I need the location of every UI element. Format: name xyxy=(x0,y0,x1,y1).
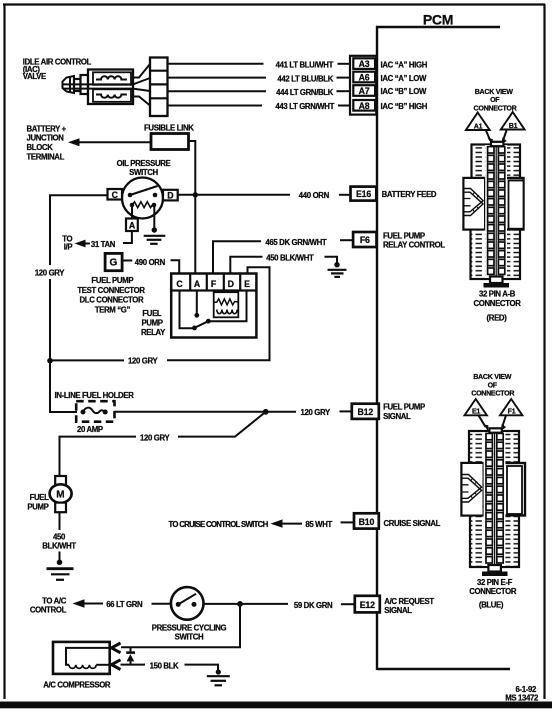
svg-text:BATTERY FEED: BATTERY FEED xyxy=(382,190,437,199)
oil pressure switch terminal A xyxy=(126,219,138,232)
pin F6 xyxy=(353,232,376,247)
svg-text:31 TAN: 31 TAN xyxy=(91,240,116,249)
IAC valve shaft collars xyxy=(74,75,88,94)
svg-text:SIGNAL: SIGNAL xyxy=(384,606,412,615)
relay internal wire from D to coil box xyxy=(231,291,233,293)
svg-text:SWITCH: SWITCH xyxy=(129,168,158,177)
left bus wire continues to junction xyxy=(49,279,51,361)
wire 120 GRY into junction xyxy=(50,359,124,361)
relay internal wire from A xyxy=(194,291,199,318)
svg-text:A/C COMPRESSOR: A/C COMPRESSOR xyxy=(43,681,111,690)
svg-text:I/P: I/P xyxy=(64,243,73,252)
svg-text:D: D xyxy=(167,191,173,201)
fuel pump test connector label xyxy=(77,276,145,315)
branch wire to fuel pump (diagonal) xyxy=(178,412,266,437)
relay switch moving contact xyxy=(192,319,211,330)
svg-text:32 PIN A-B: 32 PIN A-B xyxy=(479,290,516,299)
junction dot A/C request branch xyxy=(237,601,243,607)
32 pin A-B connector body xyxy=(464,145,524,280)
battery junction block terminal label xyxy=(27,124,67,161)
wire 490 ORN to relay terminal C xyxy=(171,260,180,273)
label TO A/C CONTROL with arrow xyxy=(30,597,103,615)
svg-text:JUNCTION: JUNCTION xyxy=(27,133,65,142)
A-B connector harness wedge xyxy=(464,178,486,230)
label FUEL PUMP xyxy=(27,493,49,512)
fuel pump relay terminal row xyxy=(171,274,256,291)
svg-text:120 GRY: 120 GRY xyxy=(35,269,65,278)
svg-text:444 LT GRN/BLK: 444 LT GRN/BLK xyxy=(276,88,334,97)
wire junction down to A/C compressor xyxy=(121,604,240,647)
fuel pump relay label xyxy=(141,309,166,337)
pin B10 xyxy=(354,513,379,528)
svg-text:120 GRY: 120 GRY xyxy=(140,433,170,442)
pin A3 xyxy=(353,58,375,69)
svg-text:C: C xyxy=(176,279,183,289)
in-line fuel holder dashed box xyxy=(76,401,114,422)
svg-text:A: A xyxy=(194,279,201,289)
svg-text:FUEL PUMP: FUEL PUMP xyxy=(383,231,425,240)
oil pressure switch terminal C xyxy=(108,189,123,200)
IAC 4-pin connector strip xyxy=(150,58,168,117)
svg-text:443 LT GRN/WHT: 443 LT GRN/WHT xyxy=(275,102,334,111)
svg-text:441 LT BLU/WHT: 441 LT BLU/WHT xyxy=(276,60,334,69)
svg-text:20 AMP: 20 AMP xyxy=(77,425,103,434)
svg-text:C: C xyxy=(112,190,119,200)
svg-text:SWITCH: SWITCH xyxy=(175,633,204,642)
A-B connector pin field xyxy=(485,142,507,278)
svg-text:PRESSURE CYCLING: PRESSURE CYCLING xyxy=(152,624,227,633)
back view of connector label (E-F) xyxy=(471,373,514,398)
wire 120 GRY from relay E around to fuel feed xyxy=(167,267,270,360)
svg-text:E: E xyxy=(244,279,250,289)
svg-text:OF: OF xyxy=(488,381,498,389)
svg-text:CONNECTOR: CONNECTOR xyxy=(471,390,514,398)
pressure cycling switch label xyxy=(152,624,227,642)
svg-text:CONNECTOR: CONNECTOR xyxy=(474,299,522,308)
ground below oil pressure switch xyxy=(144,227,166,244)
ground for 150 BLK xyxy=(207,669,230,685)
A-B connector pin column rails xyxy=(488,146,505,275)
svg-text:(BLUE): (BLUE) xyxy=(479,600,504,609)
fuse 20 AMP element xyxy=(81,408,108,415)
svg-text:66 LT GRN: 66 LT GRN xyxy=(106,600,143,609)
wire 441 LT BLU/WHT xyxy=(168,60,351,69)
svg-text:F6: F6 xyxy=(360,235,370,245)
E-F connector pin field xyxy=(484,428,506,567)
svg-text:150 BLK: 150 BLK xyxy=(150,661,179,670)
wire resistor to terminal A xyxy=(131,205,133,219)
wire coil B to connector pin 4 xyxy=(131,97,150,106)
ground below fuel pump xyxy=(47,560,74,580)
wire 444 LT GRN/BLK xyxy=(168,88,351,97)
svg-text:A6: A6 xyxy=(359,73,370,83)
back view of connector label (A-B) xyxy=(474,88,517,112)
svg-text:A3: A3 xyxy=(359,59,370,69)
ground for 450 BLK/WHT xyxy=(328,262,347,277)
junction dot fuel pump signal branch xyxy=(263,409,269,415)
svg-text:IAC “A” HIGH: IAC “A” HIGH xyxy=(381,60,428,69)
svg-text:RELAY: RELAY xyxy=(141,328,166,337)
wire 150 BLK xyxy=(121,661,219,671)
fuel pump relay outer box xyxy=(171,274,256,338)
IAC valve body xyxy=(63,70,150,105)
svg-text:D: D xyxy=(228,279,234,289)
svg-text:OIL PRESSURE: OIL PRESSURE xyxy=(117,159,171,168)
relay internal wire from C to switch contact xyxy=(180,291,194,329)
svg-text:450 BLK/WHT: 450 BLK/WHT xyxy=(266,254,314,263)
A/C compressor box xyxy=(53,642,110,674)
pin A7 xyxy=(353,85,375,96)
svg-text:MS 13472: MS 13472 xyxy=(505,694,539,703)
32 pin E-F connector body xyxy=(462,431,526,567)
svg-text:G: G xyxy=(110,258,118,269)
wire 450 BLK/WHT from fuel pump xyxy=(42,512,76,561)
pin B12 xyxy=(352,404,379,419)
svg-text:IN-LINE FUEL HOLDER: IN-LINE FUEL HOLDER xyxy=(55,391,135,400)
svg-text:E12: E12 xyxy=(360,600,375,610)
relay coil resistor xyxy=(214,299,239,305)
svg-text:DLC CONNECTOR: DLC CONNECTOR xyxy=(80,295,144,304)
left bus wire down to fuel holder xyxy=(50,361,77,412)
oil pressure switch label xyxy=(117,159,171,177)
svg-text:TO A/C: TO A/C xyxy=(42,597,67,606)
svg-text:CONNECTOR: CONNECTOR xyxy=(469,587,517,596)
svg-text:490 ORN: 490 ORN xyxy=(135,258,166,267)
relay coil box xyxy=(214,292,239,317)
oil pressure switch body xyxy=(122,178,163,219)
svg-text:B10: B10 xyxy=(359,517,375,527)
svg-text:CONNECTOR: CONNECTOR xyxy=(474,104,517,112)
svg-text:SIGNAL: SIGNAL xyxy=(383,412,411,421)
DLC test connector G xyxy=(105,253,122,270)
A-B connector bottom tab xyxy=(484,277,510,288)
label FUEL PUMP SIGNAL xyxy=(383,403,425,422)
svg-text:32 PIN E-F: 32 PIN E-F xyxy=(477,578,513,587)
svg-text:465 DK GRN/WHT: 465 DK GRN/WHT xyxy=(265,238,327,247)
svg-text:BACK VIEW: BACK VIEW xyxy=(475,88,513,96)
svg-text:RELAY CONTROL: RELAY CONTROL xyxy=(383,240,445,249)
svg-text:BATTERY +: BATTERY + xyxy=(27,124,67,133)
svg-text:TO CRUISE CONTROL SWITCH: TO CRUISE CONTROL SWITCH xyxy=(169,520,269,529)
wire terminal A to 31 TAN xyxy=(123,231,132,243)
svg-text:120 GRY: 120 GRY xyxy=(128,357,158,366)
wire 450 BLK/WHT from relay D xyxy=(230,254,337,274)
pin A6 xyxy=(353,72,375,83)
compressor input chevron arrow top xyxy=(112,643,121,653)
IAC coil B (bottom winding) xyxy=(93,89,131,102)
callout triangle E1 xyxy=(465,399,489,431)
svg-text:A7: A7 xyxy=(359,86,370,96)
svg-text:PUMP: PUMP xyxy=(142,318,163,327)
svg-text:F1: F1 xyxy=(508,408,516,416)
wire 85 WHT to pin B10 xyxy=(305,520,354,529)
svg-text:TERMINAL: TERMINAL xyxy=(27,153,65,162)
svg-text:E16: E16 xyxy=(356,189,371,199)
callout triangle B1 xyxy=(501,112,525,144)
wire 442 LT BLU/BLK xyxy=(168,74,351,83)
relay coil winding xyxy=(217,310,237,314)
junction dot left bus / 120 GRY feed xyxy=(47,358,53,364)
wire to battery junction block with arrow xyxy=(68,138,151,146)
label A/C REQUEST SIGNAL xyxy=(384,597,434,615)
oil pressure switch internal resistor xyxy=(130,202,157,208)
oil pressure switch contacts and arm xyxy=(128,186,158,197)
label FUEL PUMP RELAY CONTROL xyxy=(383,231,445,249)
A-B connector pins (column A / column B) xyxy=(488,147,505,275)
svg-text:FUEL PUMP: FUEL PUMP xyxy=(91,276,133,285)
svg-text:OF: OF xyxy=(490,96,500,104)
svg-text:A8: A8 xyxy=(359,101,370,111)
IAC coil A (top winding) xyxy=(93,72,131,85)
label TO I/P with arrow xyxy=(62,235,90,252)
svg-text:CRUISE SIGNAL: CRUISE SIGNAL xyxy=(384,519,441,528)
svg-text:CONTROL: CONTROL xyxy=(30,606,67,615)
oil pressure switch terminal D xyxy=(163,190,178,201)
svg-text:(RED): (RED) xyxy=(487,314,508,323)
svg-text:B12: B12 xyxy=(358,407,374,417)
pressure cycling switch xyxy=(171,587,204,620)
date code 6-1-92 / MS 13472 xyxy=(505,685,539,703)
svg-text:PUMP: PUMP xyxy=(27,503,48,512)
svg-text:BLOCK: BLOCK xyxy=(27,143,54,152)
wire G to 490 ORN xyxy=(122,260,132,262)
svg-text:85 WHT: 85 WHT xyxy=(305,520,332,529)
E-F connector harness wedge xyxy=(462,463,484,516)
svg-text:IAC “B” LOW: IAC “B” LOW xyxy=(381,87,428,96)
IAC valve pintle xyxy=(63,76,75,93)
clamping diode xyxy=(126,647,135,664)
wire 59 DK GRN to pin E12 xyxy=(240,601,355,610)
A/C compressor clutch coil xyxy=(66,648,110,669)
wire fusible link to relay terminal A xyxy=(189,141,196,274)
pin E12 xyxy=(355,596,380,613)
fuel pump motor xyxy=(50,476,72,512)
relay switch output wire to E xyxy=(208,291,246,322)
callout triangle F1 xyxy=(500,399,522,431)
svg-text:M: M xyxy=(56,490,64,501)
svg-text:FUSIBLE LINK: FUSIBLE LINK xyxy=(144,123,194,132)
svg-text:F: F xyxy=(211,279,217,289)
svg-text:E1: E1 xyxy=(472,408,480,416)
label 32 PIN A-B CONNECTOR (RED) xyxy=(474,290,522,323)
svg-text:A/C REQUEST: A/C REQUEST xyxy=(384,597,434,606)
E-F connector pin column rails xyxy=(486,433,503,563)
junction dot fusible-link wire / 440 ORN xyxy=(193,192,198,197)
compressor input chevron arrow bottom xyxy=(112,660,121,670)
idle air control valve label xyxy=(23,58,92,82)
svg-text:FUEL: FUEL xyxy=(142,309,162,318)
svg-text:442 LT BLU/BLK: 442 LT BLU/BLK xyxy=(277,74,333,83)
label 32 PIN E-F CONNECTOR (BLUE) xyxy=(469,578,517,609)
E-F connector pins (column E / column F) xyxy=(486,433,503,563)
wire coil A to connector pin 1 xyxy=(131,64,150,78)
wire switch to junction xyxy=(204,603,241,605)
wire terminal D to 440 ORN xyxy=(178,194,290,196)
svg-text:440 ORN: 440 ORN xyxy=(299,191,330,200)
callout triangle A1 xyxy=(466,113,493,145)
svg-text:120 GRY: 120 GRY xyxy=(301,408,331,417)
svg-text:PCM: PCM xyxy=(423,12,453,28)
wire 440 ORN to pin E16 xyxy=(339,194,351,196)
svg-text:TEST CONNECTOR: TEST CONNECTOR xyxy=(77,286,145,295)
svg-text:FUEL PUMP: FUEL PUMP xyxy=(383,403,425,412)
svg-text:TERM “G”: TERM “G” xyxy=(95,305,131,314)
svg-text:IAC “B” HIGH: IAC “B” HIGH xyxy=(381,102,428,111)
wire 443 LT GRN/WHT xyxy=(168,102,351,111)
svg-text:BLK/WHT: BLK/WHT xyxy=(42,542,76,551)
svg-text:VALVE: VALVE xyxy=(23,72,46,81)
wire right contact to ground xyxy=(153,205,155,229)
wire terminal C to left bus (120 GRY) xyxy=(50,195,108,265)
svg-text:450: 450 xyxy=(53,533,66,542)
wire 120 GRY down to fuel pump xyxy=(60,437,137,476)
label TO CRUISE CONTROL SWITCH with arrow xyxy=(169,519,303,529)
IAC signal labels at PCM xyxy=(381,60,428,111)
wire 465 DK GRN/WHT from relay F xyxy=(213,238,353,274)
wire 66 LT GRN xyxy=(106,600,171,609)
svg-text:FUEL: FUEL xyxy=(30,493,50,502)
svg-text:B1: B1 xyxy=(509,122,518,130)
svg-text:IAC “A” LOW: IAC “A” LOW xyxy=(381,74,428,83)
svg-text:A1: A1 xyxy=(474,122,483,130)
fusible link xyxy=(144,123,194,149)
PCM module box xyxy=(377,12,510,671)
PCM pin group A3 A6 A7 A8 outer box xyxy=(350,56,376,115)
svg-text:BACK VIEW: BACK VIEW xyxy=(473,373,511,381)
pin A8 xyxy=(353,100,375,111)
E-F connector bottom tab xyxy=(482,565,508,576)
pin E16 xyxy=(351,187,377,201)
wire 120 GRY fuel holder to pin B12 xyxy=(115,408,353,417)
svg-text:59 DK GRN: 59 DK GRN xyxy=(294,601,333,610)
svg-text:A: A xyxy=(129,221,136,231)
